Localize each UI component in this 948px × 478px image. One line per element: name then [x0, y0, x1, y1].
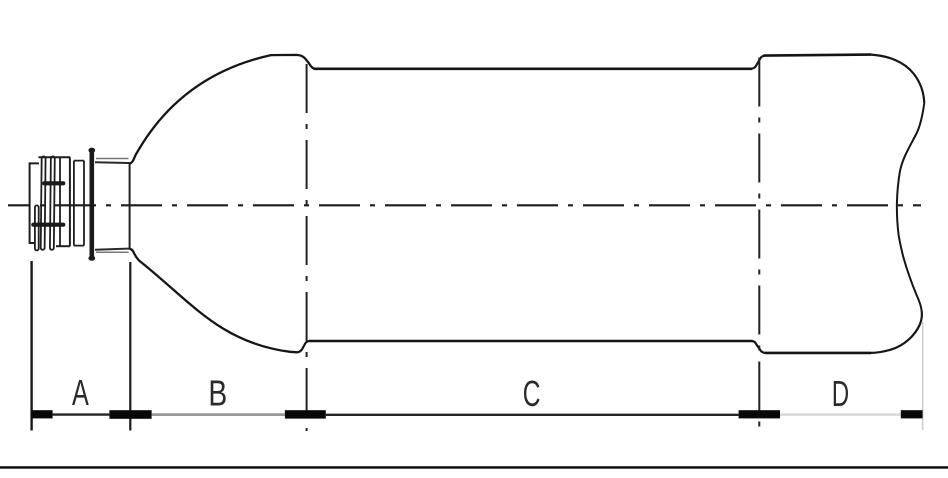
thread loop 1 — [41, 156, 46, 249]
base right wavy edge — [897, 103, 924, 311]
dimension line segment B — [152, 413, 285, 416]
body-to-base top step — [752, 56, 764, 69]
tick at C/D — [739, 410, 780, 418]
cap inner vertical line — [59, 157, 61, 246]
tick at A start — [32, 410, 53, 418]
svg-text:B: B — [208, 373, 227, 413]
svg-text:C: C — [523, 373, 541, 414]
cap body top edge — [39, 156, 71, 158]
neck lower faint line — [96, 251, 129, 253]
neck band between cap and ring — [74, 161, 84, 246]
base bottom line — [765, 352, 871, 355]
section line C/D (vertical dash-dot) — [758, 58, 760, 432]
dimension line segment C — [326, 414, 739, 416]
dimension line segment A — [53, 413, 110, 415]
support ring bottom flare — [88, 256, 95, 261]
thread bar lower — [33, 223, 63, 227]
tick at B/C — [285, 410, 326, 418]
base bottom-right corner — [871, 311, 922, 353]
cap body bottom edge — [56, 245, 70, 247]
body-to-shoulder bottom step — [298, 341, 310, 352]
support ring (flange) — [90, 149, 95, 259]
thread loop 3 — [35, 205, 39, 250]
extension line A/B — [129, 262, 131, 431]
body bottom line — [309, 340, 753, 343]
base top-right corner — [871, 55, 924, 103]
extension line right (D end, faint) — [922, 322, 924, 430]
bottom border rule — [0, 466, 948, 469]
tick at A/B — [109, 410, 151, 419]
section line B/C (vertical dash-dot) — [306, 64, 308, 431]
neck top edge — [95, 161, 130, 164]
thread bar upper — [44, 181, 63, 185]
body top line — [314, 68, 753, 71]
support ring top flare — [88, 148, 95, 153]
shoulder top curve — [130, 55, 315, 164]
svg-text:A: A — [72, 372, 89, 413]
neck end vertical at shoulder junction — [129, 163, 131, 249]
base top line — [764, 55, 872, 56]
shoulder bottom curve — [130, 249, 298, 352]
cap outer left outline — [30, 163, 39, 243]
base-to-body bottom step — [753, 341, 766, 353]
neck upper faint line — [96, 158, 129, 160]
centerline (horizontal dash-dot axis) — [8, 204, 921, 206]
neck bottom edge — [95, 249, 130, 250]
cap right edge vertical — [69, 157, 71, 246]
svg-text:D: D — [832, 374, 849, 414]
extension line left (A start) — [30, 261, 32, 431]
thread loop 2 — [50, 156, 55, 249]
tick at D end — [901, 410, 923, 418]
dimension line segment D — [780, 413, 901, 416]
